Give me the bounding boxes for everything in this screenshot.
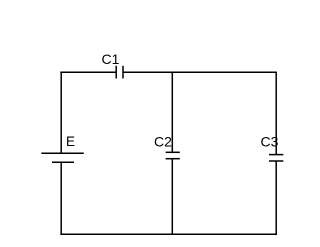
wire left upper (top-left corner down to battery) xyxy=(60,72,62,154)
svg-text:C3: C3 xyxy=(261,134,279,150)
capacitor C2 xyxy=(166,152,180,158)
svg-text:E: E xyxy=(66,134,75,149)
svg-text:C2: C2 xyxy=(154,134,172,150)
battery E xyxy=(41,153,83,162)
wire middle lower (C2 bottom plate to bottom node) xyxy=(171,159,173,235)
capacitor C3 xyxy=(269,155,283,161)
wire top-left segment (battery + node to C1 left plate) xyxy=(60,71,116,73)
wire right lower (C3 to bottom-right corner) xyxy=(275,161,277,235)
svg-text:C1: C1 xyxy=(102,51,120,67)
wire top-right segment (C1 right plate to top-right corner) xyxy=(123,71,276,73)
capacitor C1 xyxy=(116,66,123,79)
wire bottom (bottom-left corner to bottom-right corner) xyxy=(60,233,277,235)
wire left lower (battery to bottom-left corner) xyxy=(60,162,62,235)
wire middle upper (top node to C2 top plate) xyxy=(171,72,173,152)
wire right upper (top-right corner down to C3) xyxy=(275,72,277,155)
